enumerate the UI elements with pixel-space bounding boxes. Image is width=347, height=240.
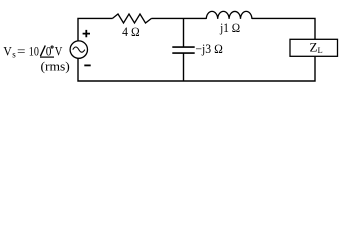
- plus polarity mark: [83, 30, 90, 37]
- wire: inductor to top-right corner, down to ZL box: [252, 18, 315, 39]
- node: capacitor branch from top wire: [183, 18, 185, 47]
- sine wave inside source: [73, 47, 85, 52]
- svg-text:L: L: [318, 45, 323, 55]
- wire: capacitor to bottom wire: [183, 53, 185, 81]
- underline of angle notation: [40, 56, 54, 58]
- degree mark: [51, 46, 53, 48]
- minus polarity mark: [84, 64, 90, 66]
- svg-text:V: V: [3, 43, 12, 58]
- AC source Vs circle: [70, 41, 87, 58]
- svg-text:(rms): (rms): [41, 60, 70, 74]
- wire top: source to resistor: [78, 18, 113, 41]
- svg-text:=: =: [17, 43, 26, 58]
- capacitor C (-j3 ohm) bottom plate: [172, 52, 194, 54]
- svg-text:s: s: [12, 50, 16, 60]
- svg-text:Z: Z: [310, 40, 318, 55]
- wire: resistor to inductor through node: [152, 17, 207, 19]
- svg-text:−j3 Ω: −j3 Ω: [195, 42, 223, 56]
- resistor R (4 ohm) zigzag: [113, 14, 152, 23]
- svg-text:j1 Ω: j1 Ω: [219, 21, 240, 35]
- svg-text:4 Ω: 4 Ω: [122, 25, 140, 39]
- svg-text:V: V: [55, 43, 63, 58]
- capacitor C (-j3 ohm) top plate: [172, 46, 194, 48]
- wire: ZL box to bottom-right corner and bottom return to source: [78, 56, 315, 81]
- angle symbol slash: [40, 46, 45, 57]
- inductor L (j1 ohm) 4 humps: [206, 11, 252, 19]
- load box ZL: [290, 39, 338, 56]
- svg-text:10: 10: [29, 44, 39, 58]
